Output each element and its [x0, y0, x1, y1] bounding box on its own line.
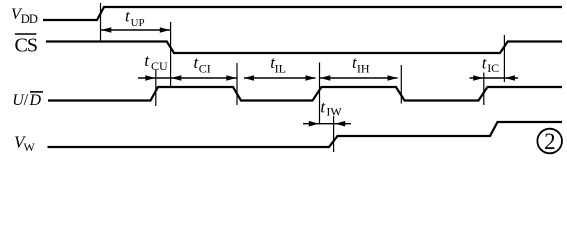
dimension tCI arrow — [171, 75, 237, 81]
node CS label — [15, 34, 37, 56]
svg-text:2: 2 — [544, 129, 556, 154]
svg-text:W: W — [24, 140, 36, 154]
wire CS waveform — [46, 42, 562, 54]
dimension tIH arrow — [320, 75, 398, 81]
svg-text:IL: IL — [275, 61, 286, 75]
extension line at U/D falling edge 1 x=237 — [236, 63, 238, 105]
dimension tIL arrow — [244, 75, 316, 81]
extension line at CS rising edge x=504.4 — [503, 35, 505, 82]
dimension tIW arrow (outside arrows) — [303, 121, 351, 127]
extension line at CS falling edge x=170.6 — [170, 22, 172, 87]
extension line at VDD rising edge x=100.5 — [100, 3, 102, 41]
wire VW waveform — [48, 122, 563, 147]
svg-text:IH: IH — [357, 61, 370, 75]
circled 2 figure number — [537, 129, 562, 154]
label tCU — [144, 51, 168, 73]
extension line at VW rising edge x=333.6 — [333, 116, 335, 152]
node VW label — [14, 132, 36, 154]
label tIC — [482, 54, 499, 75]
extension line at U/D rising edge 2 x=319.5 — [319, 63, 321, 125]
svg-text:CI: CI — [199, 61, 211, 75]
label tIW — [320, 97, 342, 118]
wire U/D waveform — [48, 87, 562, 101]
svg-text:t: t — [144, 51, 150, 70]
svg-text:/: / — [24, 90, 29, 109]
svg-text:CS: CS — [15, 34, 37, 56]
label tIH — [352, 53, 370, 75]
label tUP — [125, 6, 145, 28]
label tCI — [194, 53, 211, 75]
node VDD label — [11, 6, 38, 26]
extension line at U/D rising edge 1 x=155.8 — [155, 69, 157, 106]
node U/D label — [12, 90, 43, 109]
wire VDD waveform — [43, 7, 562, 20]
label tIL — [270, 53, 286, 75]
svg-text:UP: UP — [131, 17, 145, 29]
dimension tUP arrow — [101, 27, 171, 33]
dimension tCU arrow (outside arrow at left) — [138, 75, 171, 81]
extension line at U/D rising edge 3 x=483.8 — [483, 73, 485, 106]
svg-text:DD: DD — [21, 12, 38, 26]
extension line at U/D falling edge 2 x=401.3 — [400, 65, 402, 104]
svg-text:IW: IW — [326, 104, 342, 118]
svg-text:D: D — [29, 92, 42, 109]
dimension tIC arrow (outside arrows) — [470, 75, 519, 81]
svg-text:CU: CU — [151, 59, 168, 73]
svg-text:IC: IC — [487, 61, 499, 75]
